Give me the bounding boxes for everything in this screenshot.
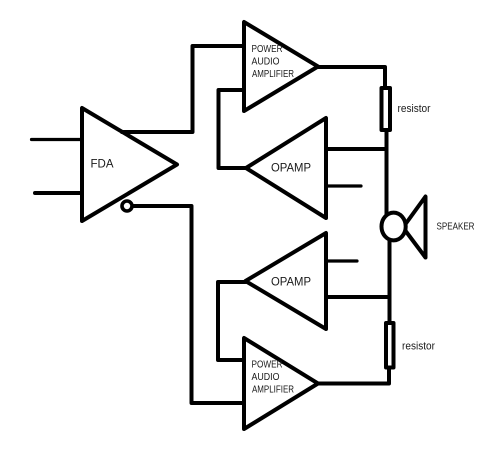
svg-text:OPAMP: OPAMP	[271, 163, 311, 175]
svg-text:AMPLIFIER: AMPLIFIER	[252, 69, 294, 80]
svg-text:SPEAKER: SPEAKER	[437, 221, 475, 233]
svg-text:AUDIO: AUDIO	[252, 372, 280, 383]
svg-text:FDA: FDA	[91, 157, 114, 171]
svg-text:AMPLIFIER: AMPLIFIER	[252, 385, 294, 396]
svg-text:AUDIO: AUDIO	[252, 57, 280, 68]
svg-text:POWER: POWER	[252, 44, 283, 55]
svg-text:POWER: POWER	[252, 360, 283, 371]
svg-text:OPAMP: OPAMP	[271, 277, 311, 289]
svg-text:resistor: resistor	[402, 341, 435, 353]
svg-text:resistor: resistor	[398, 103, 431, 115]
